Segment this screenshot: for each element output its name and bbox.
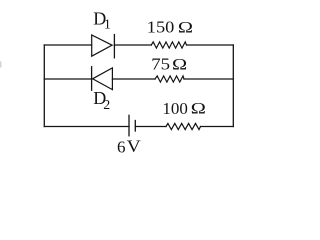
battery short plate	[134, 121, 136, 132]
wire middle right segment	[112, 78, 155, 80]
resistor R2 75ohm zigzag	[155, 76, 184, 82]
diode D1 triangle	[92, 35, 112, 56]
svg-text:6: 6	[117, 138, 126, 157]
resistor R3 100ohm zigzag	[166, 123, 201, 129]
wire bottom left segment	[44, 126, 129, 128]
svg-text:V: V	[127, 137, 142, 156]
resistor R1 150ohm zigzag	[151, 42, 186, 48]
stray scan speck left edge	[0, 62, 1, 68]
diode D1 cathode bar	[113, 35, 115, 58]
svg-text:Ω: Ω	[178, 18, 193, 36]
svg-text:Ω: Ω	[172, 55, 187, 73]
wire top middle segment	[114, 44, 151, 46]
svg-text:150: 150	[147, 17, 175, 36]
diode D2 cathode bar	[91, 67, 93, 91]
wire top left segment	[44, 44, 91, 46]
svg-text:2: 2	[103, 98, 110, 113]
wire middle far right segment	[184, 78, 233, 80]
svg-text:100: 100	[162, 99, 188, 118]
wire middle left segment	[44, 78, 91, 80]
diode D2 triangle	[93, 68, 113, 90]
wire right vertical rail	[232, 45, 234, 127]
svg-text:75: 75	[151, 55, 170, 74]
battery long plate	[128, 115, 130, 136]
wire bottom middle segment	[135, 126, 166, 128]
wire top right segment	[187, 44, 234, 46]
wire bottom right segment	[201, 126, 234, 128]
wire left vertical rail	[43, 45, 45, 127]
svg-text:1: 1	[104, 17, 111, 32]
svg-text:Ω: Ω	[191, 100, 206, 118]
